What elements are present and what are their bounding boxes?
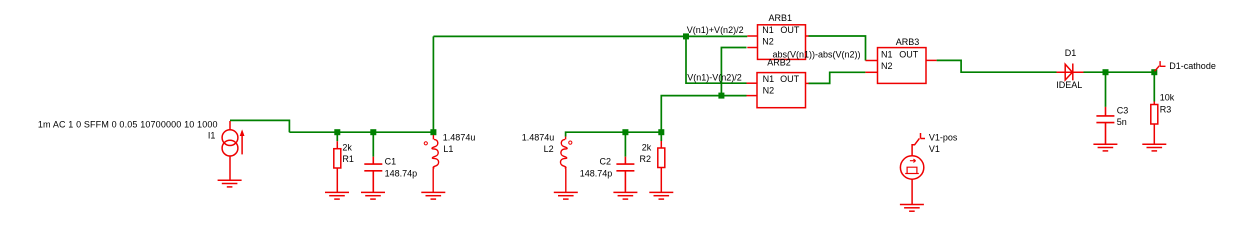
ground C3: [1093, 144, 1117, 151]
svg-text:OUT: OUT: [899, 50, 919, 60]
wire ARB1 OUT to ARB3 N1: [808, 36, 865, 61]
svg-text:148.74p: 148.74p: [385, 168, 418, 178]
wire R2 stub: [660, 132, 662, 141]
svg-text:D1: D1: [1065, 48, 1077, 58]
svg-text:V(n1)+V(n2)/2: V(n1)+V(n2)/2: [687, 25, 744, 35]
ground C1: [361, 192, 385, 199]
wire ARB2 OUT to ARB3 N2: [808, 72, 865, 83]
ground L1: [421, 192, 445, 199]
wire ARB3 OUT to diode D1: [937, 60, 1057, 72]
wire row2 L2 C2 R2: [566, 132, 662, 136]
ground C2: [613, 192, 637, 199]
svg-text:N2: N2: [762, 37, 774, 47]
svg-text:1.4874u: 1.4874u: [522, 132, 555, 142]
diode D1: [1057, 64, 1084, 81]
svg-text:R1: R1: [342, 154, 354, 164]
junction at C3: [1103, 69, 1109, 75]
svg-text:5n: 5n: [1117, 117, 1127, 127]
resistor R2: [658, 141, 665, 192]
svg-text:L1: L1: [443, 144, 453, 154]
svg-text:N2: N2: [881, 61, 893, 71]
svg-text:2k: 2k: [642, 142, 652, 152]
svg-text:I1: I1: [208, 131, 216, 141]
inductor L2: [560, 137, 571, 193]
wire node V(n1)+V(n2)/2 down to ARB2 N1: [686, 36, 747, 83]
svg-text:N2: N2: [763, 85, 775, 95]
arbitrary source U ARB3: [865, 48, 936, 84]
wire C2 stub: [624, 132, 626, 157]
wire C1 stub: [372, 132, 374, 157]
junction at R2: [658, 129, 664, 135]
svg-text:C2: C2: [599, 157, 611, 167]
voltage source V1: [900, 133, 925, 205]
arbitrary source U ARB2: [747, 73, 809, 108]
ground R1: [325, 192, 349, 199]
junction at R1: [334, 129, 340, 135]
svg-text:L2: L2: [544, 144, 554, 154]
wire I1 top to row1: [230, 120, 289, 132]
svg-text:R3: R3: [1160, 104, 1172, 114]
ground L2: [554, 192, 578, 199]
junction at L1: [430, 129, 436, 135]
wire ARB1 N2 tap: [721, 48, 746, 96]
wire L1 junction up: [432, 36, 434, 132]
ground V1: [900, 205, 924, 212]
arbitrary source U ARB1: [747, 25, 808, 60]
svg-text:ARB3: ARB3: [896, 37, 920, 47]
svg-text:OUT: OUT: [780, 74, 800, 84]
resistor R1: [334, 141, 341, 192]
ground I1: [218, 180, 242, 187]
inductor L1: [424, 135, 438, 193]
ground R2: [649, 192, 673, 199]
svg-text:V1: V1: [929, 144, 940, 154]
svg-text:1.4874u: 1.4874u: [443, 132, 476, 142]
svg-text:N1: N1: [881, 50, 893, 60]
svg-text:C1: C1: [385, 157, 397, 167]
wire R3 drop: [1153, 72, 1155, 101]
wire C3 drop: [1105, 72, 1107, 107]
svg-text:ARB2: ARB2: [767, 58, 791, 68]
svg-text:ARB1: ARB1: [769, 13, 793, 23]
capacitor C3: [1096, 107, 1114, 144]
svg-text:OUT: OUT: [780, 25, 800, 35]
svg-text:D1-cathode: D1-cathode: [1169, 61, 1216, 71]
capacitor C1: [364, 157, 382, 193]
resistor R3: [1151, 102, 1158, 145]
junction at C1: [370, 129, 376, 135]
svg-text:N1: N1: [763, 74, 775, 84]
svg-text:N1: N1: [762, 25, 774, 35]
svg-text:1m AC 1 0 SFFM 0 0.05 10700000: 1m AC 1 0 SFFM 0 0.05 10700000 10 1000: [38, 119, 218, 129]
svg-text:2k: 2k: [342, 142, 352, 152]
ground R3: [1142, 144, 1166, 151]
terminal D1-cathode: [1155, 61, 1166, 71]
svg-text:C3: C3: [1117, 105, 1129, 115]
current source I1: [222, 121, 242, 180]
svg-text:148.74p: 148.74p: [580, 168, 613, 178]
wire R1 stub: [336, 132, 338, 141]
arrowhead I1: [240, 129, 245, 136]
wire top net n1: [433, 35, 747, 37]
junction ARB1 N2 tap: [718, 93, 724, 99]
svg-text:V1-pos: V1-pos: [929, 133, 958, 143]
capacitor C2: [616, 157, 634, 193]
svg-text:V(n1)-V(n2)/2: V(n1)-V(n2)/2: [687, 72, 742, 82]
junction node V(n1)+V(n2)/2: [683, 33, 689, 39]
svg-text:10k: 10k: [1160, 93, 1175, 103]
junction at R3: [1151, 69, 1157, 75]
svg-text:R2: R2: [639, 154, 651, 164]
junction at C2: [622, 129, 628, 135]
wire row1 R1 C1 L1: [289, 131, 433, 133]
wire R2 junction up to ARB2 N2: [661, 96, 746, 133]
wire diode to C3 R3 terminal: [1084, 71, 1155, 73]
svg-text:IDEAL: IDEAL: [1056, 80, 1082, 90]
